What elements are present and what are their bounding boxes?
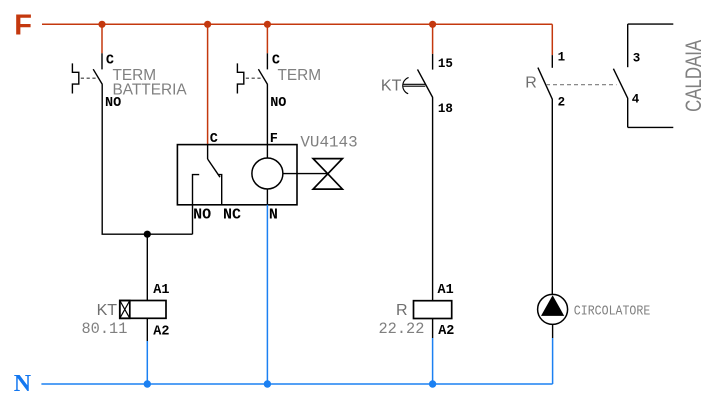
- wire R coil A2 black part: [432, 319, 434, 339]
- svg-text:1: 1: [558, 51, 566, 65]
- svg-text:NO: NO: [193, 206, 211, 223]
- pump CIRCOLATORE circle: [538, 294, 568, 324]
- valve internal switch C lead: [207, 145, 209, 159]
- junction dot F at TERM: [264, 21, 271, 28]
- svg-text:NO: NO: [270, 96, 286, 111]
- svg-text:A2: A2: [438, 324, 454, 339]
- junction dot N at KT coil: [144, 380, 151, 387]
- svg-text:A2: A2: [153, 325, 169, 340]
- switch 3-4 caldaia: [613, 24, 673, 127]
- valve motor circle: [252, 158, 283, 189]
- thermostat TERM contact: [258, 53, 267, 144]
- svg-text:4: 4: [632, 92, 640, 106]
- thermostat TERM BATTERIA contact: [93, 53, 102, 234]
- svg-text:CALDAIA: CALDAIA: [681, 40, 706, 112]
- timer delay symbol on KT contact: [403, 78, 426, 94]
- svg-text:CIRCOLATORE: CIRCOLATORE: [574, 304, 651, 320]
- wire F drop to TERM: [266, 24, 268, 53]
- svg-text:NC: NC: [223, 206, 241, 223]
- wire KT coil A2 blue part: [146, 341, 148, 384]
- svg-text:NO: NO: [105, 96, 121, 111]
- svg-text:A1: A1: [153, 283, 169, 298]
- thermostat TERM BATTERIA link dashed: [81, 77, 98, 79]
- relay contact R 1-2: [538, 55, 553, 294]
- valve NO contact: [193, 175, 200, 235]
- valve motor bottom lead: [266, 189, 268, 205]
- svg-text:22.22: 22.22: [379, 320, 425, 338]
- valve stem link: [283, 173, 328, 175]
- wire bus F horizontal: [42, 23, 552, 25]
- wire junction down to KT coil A1: [146, 234, 148, 300]
- thermostat TERM link dashed: [246, 77, 263, 79]
- motorized valve box VU4143: [177, 145, 297, 205]
- svg-text:VU4143: VU4143: [300, 133, 357, 151]
- wire KT coil A2 to bus N black part: [146, 318, 148, 341]
- wire F drop to KT contact: [432, 24, 434, 54]
- wire R coil A2 blue part: [432, 338, 434, 384]
- valve motor top lead: [266, 145, 268, 158]
- wire valve N to bus N (blue): [266, 205, 268, 384]
- wire F drop to valve C terminal: [207, 24, 209, 144]
- svg-text:18: 18: [438, 102, 453, 116]
- svg-text:2: 2: [558, 96, 566, 110]
- coil KT 80.11: [120, 301, 166, 319]
- svg-text:80.11: 80.11: [82, 320, 128, 338]
- svg-text:R: R: [525, 75, 537, 92]
- svg-text:15: 15: [438, 57, 453, 71]
- timer contact KT 15-18: [418, 54, 433, 301]
- pump triangle: [541, 295, 564, 316]
- svg-text:N: N: [14, 371, 32, 397]
- svg-text:F: F: [14, 10, 32, 42]
- junction dot F at KT contact: [429, 21, 436, 28]
- mechanical link dashed R to caldaia switch: [546, 84, 617, 86]
- svg-text:BATTERIA: BATTERIA: [113, 81, 188, 98]
- svg-text:3: 3: [633, 52, 641, 66]
- junction dot F at valve C: [204, 21, 211, 28]
- junction dot N at R coil: [429, 380, 436, 387]
- thermostat TERM actuator: [237, 63, 243, 93]
- junction dot at KT coil branch: [144, 231, 151, 238]
- wire TERM BATTERIA NO / valve NO to KT coil: [102, 233, 193, 235]
- svg-text:N: N: [269, 206, 278, 223]
- wire F drop to TERM BATTERIA: [101, 24, 103, 53]
- coil R 22.22: [414, 301, 452, 319]
- svg-text:A1: A1: [438, 283, 454, 298]
- valve body symbol: [313, 159, 342, 190]
- svg-text:KT: KT: [97, 302, 118, 319]
- svg-text:C: C: [210, 132, 218, 147]
- thermostat TERM BATTERIA actuator: [72, 63, 78, 93]
- junction dot F at TERM BATTERIA: [98, 21, 105, 28]
- wire F drop to R contact corner: [551, 24, 553, 55]
- svg-text:F: F: [270, 132, 278, 147]
- junction dot N at valve: [264, 380, 271, 387]
- svg-text:R: R: [396, 302, 408, 319]
- wire pump to bus N blue part: [552, 338, 554, 384]
- wire pump bottom black part: [552, 324, 554, 338]
- valve internal switch blade: [208, 159, 220, 177]
- svg-text:TERM: TERM: [278, 67, 322, 84]
- valve NC contact: [218, 175, 222, 205]
- wire bus N horizontal: [41, 383, 552, 385]
- svg-text:KT: KT: [381, 77, 402, 94]
